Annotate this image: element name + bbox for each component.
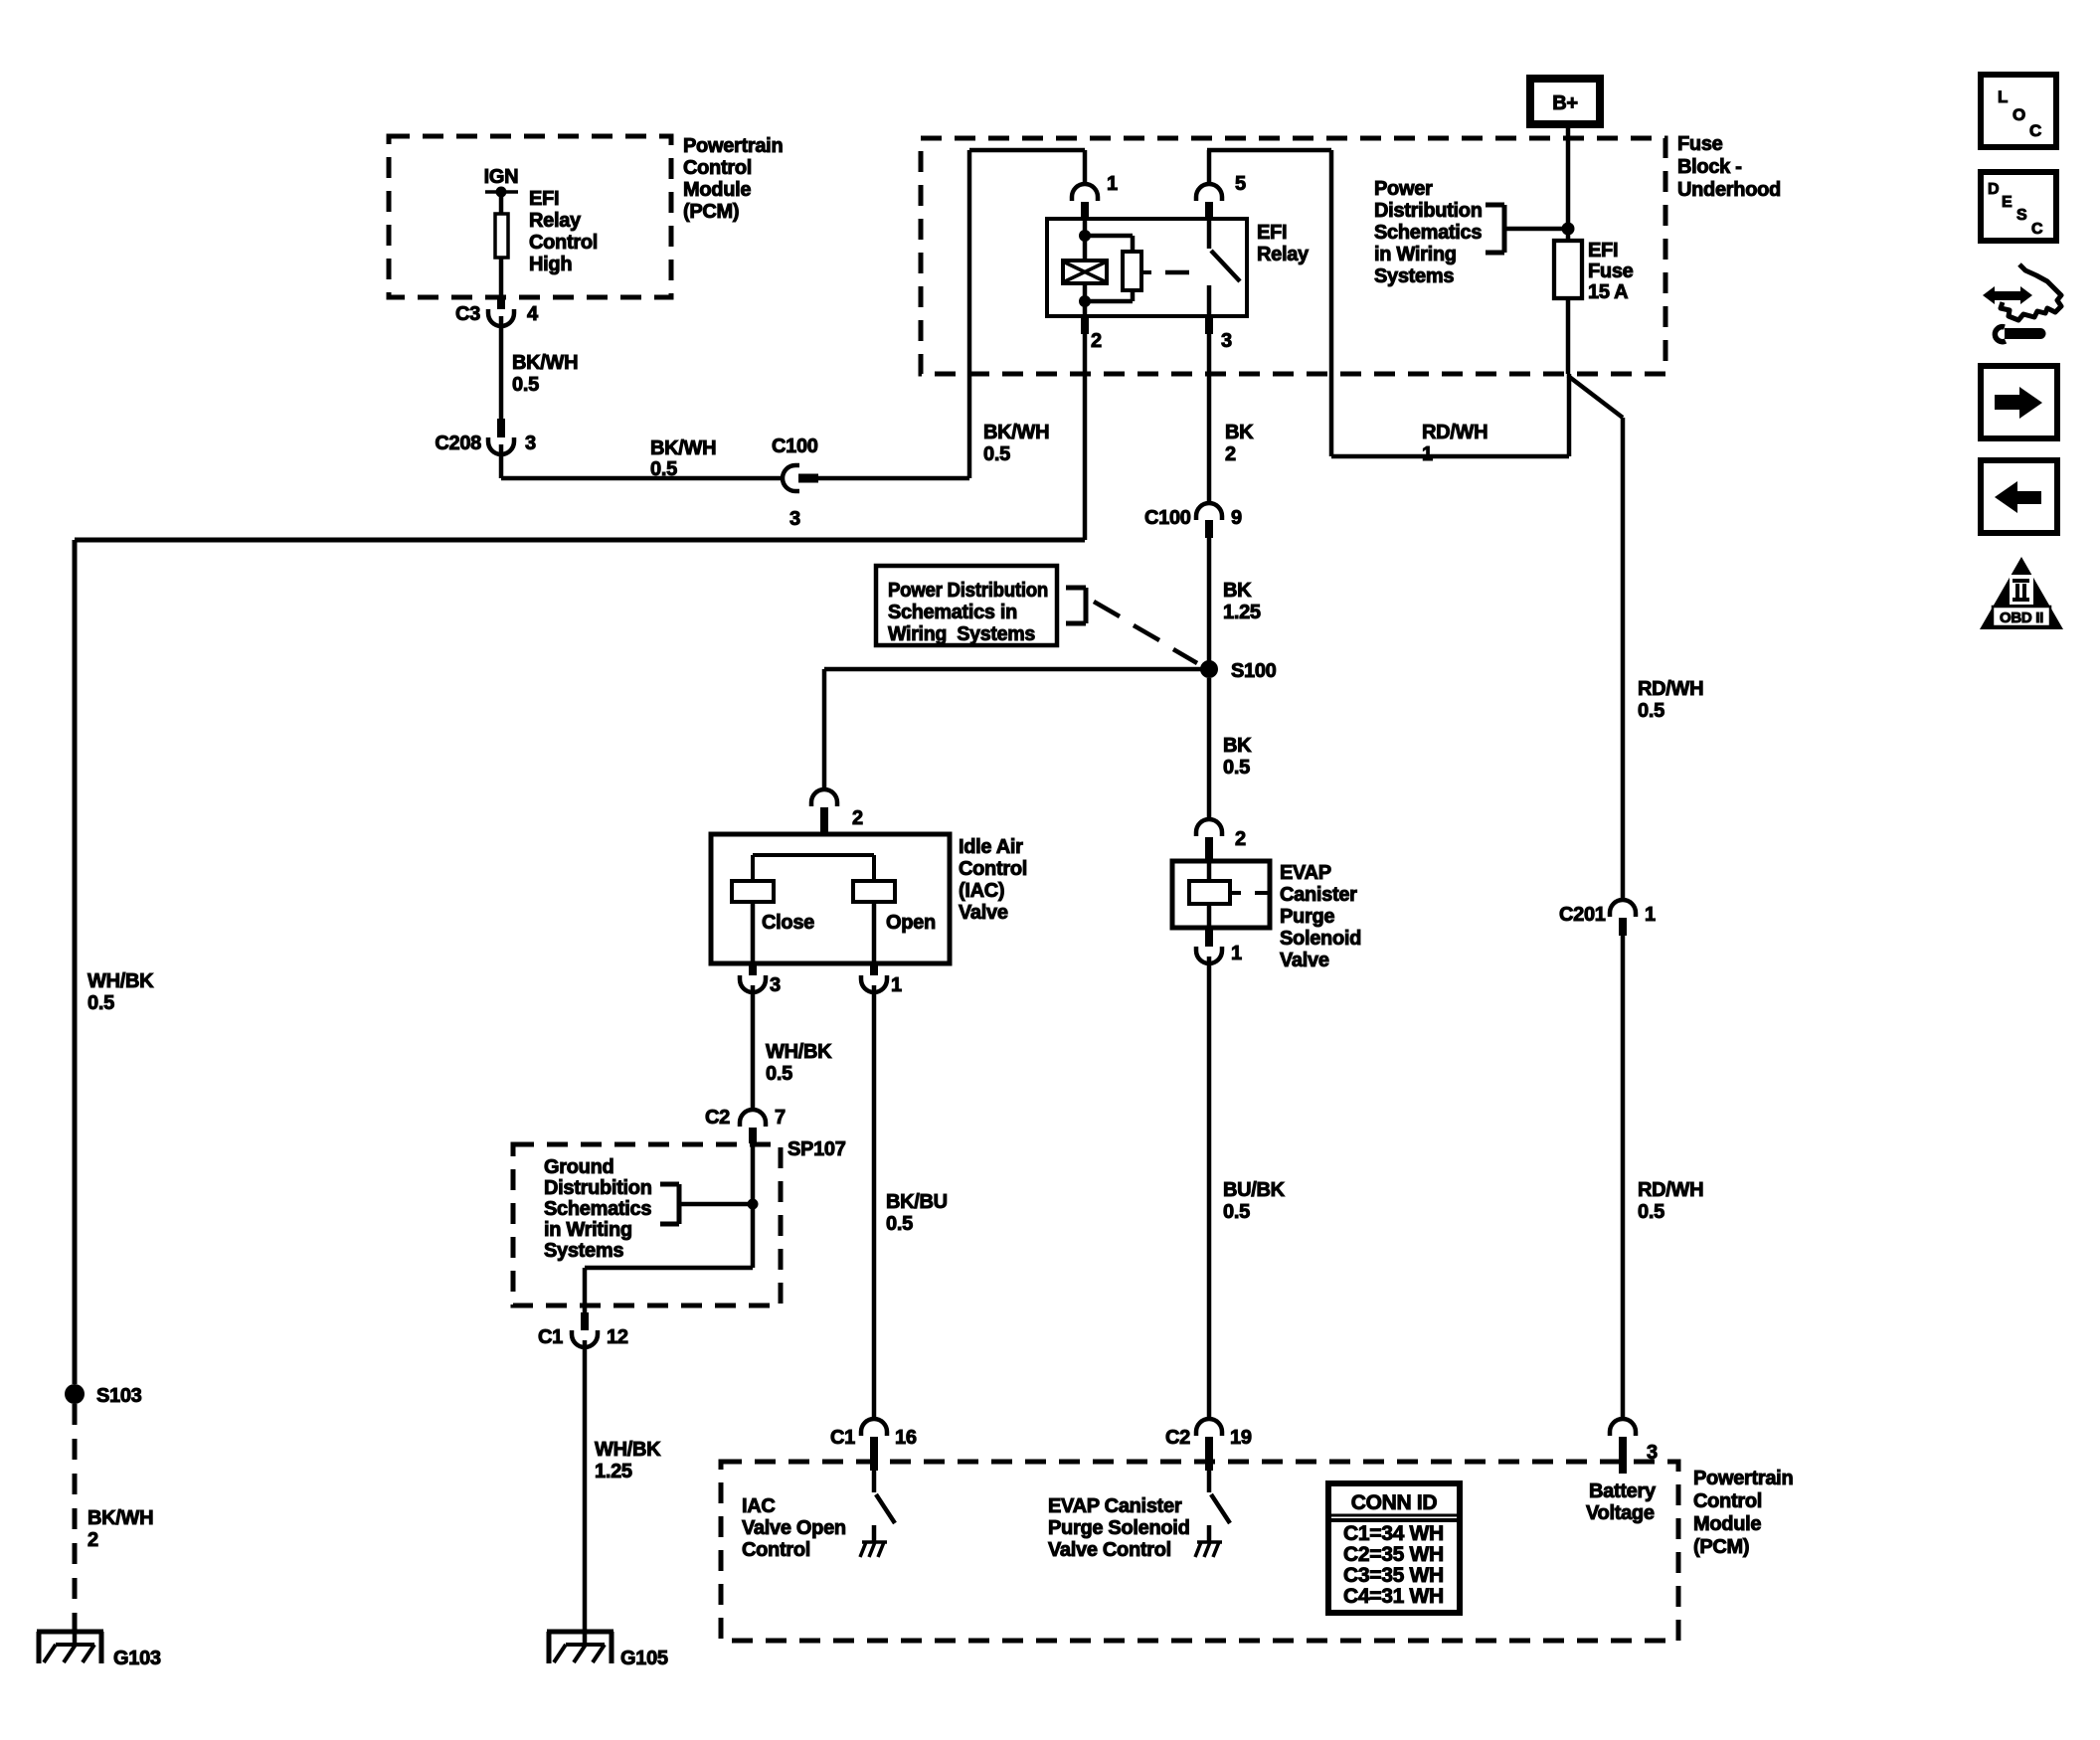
svg-text:Relay: Relay: [1257, 244, 1310, 265]
svg-text:4: 4: [527, 303, 539, 325]
svg-text:SP107: SP107: [787, 1138, 846, 1160]
svg-text:Idle Air: Idle Air: [959, 836, 1023, 858]
svg-text:C4=31 WH: C4=31 WH: [1343, 1585, 1444, 1608]
svg-text:Distrubition: Distrubition: [544, 1177, 652, 1199]
svg-text:Block -: Block -: [1677, 156, 1742, 178]
svg-text:IGN: IGN: [484, 166, 519, 188]
svg-text:3: 3: [1647, 1442, 1658, 1464]
svg-text:Power: Power: [1374, 178, 1433, 200]
svg-text:2: 2: [1235, 828, 1246, 850]
svg-text:WH/BK: WH/BK: [595, 1439, 661, 1461]
svg-text:C3=35 WH: C3=35 WH: [1343, 1564, 1444, 1587]
svg-text:L: L: [1998, 87, 2008, 106]
svg-text:C100: C100: [1144, 507, 1191, 529]
svg-text:Distribution: Distribution: [1374, 200, 1483, 222]
svg-text:Control: Control: [683, 157, 752, 179]
svg-text:(IAC): (IAC): [959, 880, 1004, 902]
svg-text:16: 16: [895, 1427, 917, 1449]
svg-text:2: 2: [1225, 443, 1236, 465]
svg-text:WH/BK: WH/BK: [87, 970, 154, 992]
svg-text:BK: BK: [1223, 580, 1252, 602]
svg-text:OBD II: OBD II: [2000, 609, 2043, 626]
svg-text:Schematics: Schematics: [1374, 222, 1482, 244]
svg-text:Fuse: Fuse: [1588, 261, 1634, 282]
svg-text:19: 19: [1230, 1427, 1252, 1449]
svg-text:Wiring Systems: Wiring Systems: [888, 623, 1035, 645]
svg-text:E: E: [2002, 194, 2012, 211]
svg-text:C3: C3: [455, 303, 480, 325]
svg-text:C1: C1: [538, 1326, 563, 1348]
svg-text:EVAP Canister: EVAP Canister: [1048, 1495, 1182, 1517]
svg-text:C2=35 WH: C2=35 WH: [1343, 1543, 1444, 1566]
svg-text:G105: G105: [620, 1648, 668, 1669]
svg-text:CONN ID: CONN ID: [1351, 1491, 1438, 1514]
svg-text:2: 2: [87, 1529, 98, 1551]
svg-text:RD/WH: RD/WH: [1638, 678, 1703, 700]
svg-text:Systems: Systems: [1374, 265, 1454, 287]
svg-text:C: C: [2031, 221, 2043, 238]
svg-text:2: 2: [852, 807, 863, 829]
svg-text:Control: Control: [529, 232, 598, 254]
svg-text:C2: C2: [1165, 1427, 1190, 1449]
svg-text:1.25: 1.25: [1223, 602, 1261, 623]
svg-text:BK: BK: [1225, 422, 1254, 443]
svg-text:0.5: 0.5: [886, 1213, 913, 1235]
svg-text:Ground: Ground: [544, 1156, 613, 1178]
svg-text:3: 3: [525, 433, 536, 454]
svg-text:1: 1: [1645, 904, 1656, 926]
svg-text:0.5: 0.5: [1223, 757, 1250, 779]
svg-text:O: O: [2012, 105, 2025, 124]
svg-text:High: High: [529, 254, 572, 275]
svg-text:Purge: Purge: [1280, 906, 1334, 928]
svg-text:BK/BU: BK/BU: [886, 1191, 948, 1213]
svg-text:1: 1: [1422, 443, 1433, 465]
svg-text:Powertrain: Powertrain: [1693, 1468, 1793, 1489]
svg-text:3: 3: [1221, 330, 1232, 352]
svg-text:EFI: EFI: [1257, 222, 1287, 244]
svg-text:Valve: Valve: [1280, 950, 1329, 971]
svg-text:EFI: EFI: [529, 188, 559, 210]
svg-text:3: 3: [770, 974, 781, 996]
svg-text:0.5: 0.5: [1638, 700, 1664, 722]
svg-text:5: 5: [1235, 173, 1246, 195]
svg-text:BK: BK: [1223, 735, 1252, 757]
svg-text:IAC: IAC: [742, 1495, 776, 1517]
svg-text:in Writing: in Writing: [544, 1219, 632, 1241]
svg-text:2: 2: [1091, 330, 1102, 352]
svg-text:EVAP: EVAP: [1280, 862, 1331, 884]
svg-text:Module: Module: [1693, 1513, 1761, 1535]
svg-text:0.5: 0.5: [766, 1063, 792, 1085]
svg-text:Valve Open: Valve Open: [742, 1517, 846, 1539]
svg-text:Control: Control: [959, 858, 1027, 880]
svg-text:Schematics: Schematics: [544, 1198, 651, 1220]
svg-text:(PCM): (PCM): [1693, 1536, 1749, 1558]
svg-text:1: 1: [891, 974, 902, 996]
svg-text:1: 1: [1107, 173, 1118, 195]
svg-text:EFI: EFI: [1588, 240, 1618, 261]
svg-text:15 A: 15 A: [1588, 281, 1628, 303]
svg-text:Control: Control: [1693, 1490, 1762, 1512]
svg-text:Schematics in: Schematics in: [888, 602, 1017, 623]
svg-text:RD/WH: RD/WH: [1422, 422, 1487, 443]
svg-text:C1: C1: [830, 1427, 855, 1449]
svg-text:BU/BK: BU/BK: [1223, 1179, 1286, 1201]
svg-text:Solenoid: Solenoid: [1280, 928, 1361, 950]
svg-text:1.25: 1.25: [595, 1461, 632, 1482]
svg-text:Valve: Valve: [959, 902, 1008, 924]
svg-text:BK/WH: BK/WH: [650, 437, 716, 459]
svg-text:D: D: [1988, 181, 1999, 198]
svg-text:Module: Module: [683, 179, 751, 201]
svg-text:S: S: [2016, 207, 2027, 224]
svg-text:Control: Control: [742, 1539, 810, 1561]
svg-text:Valve Control: Valve Control: [1048, 1539, 1171, 1561]
svg-text:BK/WH: BK/WH: [983, 422, 1049, 443]
svg-text:Purge Solenoid: Purge Solenoid: [1048, 1517, 1189, 1539]
svg-text:0.5: 0.5: [87, 992, 114, 1014]
svg-text:Open: Open: [886, 912, 936, 934]
svg-text:Underhood: Underhood: [1677, 179, 1781, 201]
svg-text:0.5: 0.5: [650, 458, 677, 480]
svg-text:12: 12: [607, 1326, 628, 1348]
svg-text:S100: S100: [1231, 660, 1277, 682]
svg-text:G103: G103: [113, 1648, 161, 1669]
svg-text:Close: Close: [762, 912, 814, 934]
svg-text:0.5: 0.5: [512, 374, 539, 396]
svg-text:BK/WH: BK/WH: [512, 352, 578, 374]
svg-text:B+: B+: [1552, 92, 1578, 114]
svg-text:C208: C208: [435, 433, 481, 454]
svg-text:Voltage: Voltage: [1586, 1502, 1655, 1524]
svg-text:Power Distribution: Power Distribution: [888, 580, 1048, 602]
svg-text:7: 7: [775, 1107, 786, 1129]
svg-text:0.5: 0.5: [1223, 1201, 1250, 1223]
svg-text:Relay: Relay: [529, 210, 582, 232]
svg-text:BK/WH: BK/WH: [87, 1507, 153, 1529]
svg-text:3: 3: [789, 508, 800, 530]
svg-text:9: 9: [1231, 507, 1242, 529]
svg-text:1: 1: [1231, 943, 1242, 964]
svg-text:Canister: Canister: [1280, 884, 1357, 906]
svg-text:C2: C2: [705, 1107, 730, 1129]
svg-text:Battery: Battery: [1589, 1480, 1657, 1502]
svg-text:WH/BK: WH/BK: [766, 1041, 832, 1063]
svg-text:S103: S103: [96, 1385, 142, 1407]
svg-text:RD/WH: RD/WH: [1638, 1179, 1703, 1201]
svg-text:0.5: 0.5: [983, 443, 1010, 465]
svg-text:C100: C100: [772, 435, 818, 457]
svg-text:C1=34 WH: C1=34 WH: [1343, 1522, 1444, 1545]
svg-text:Fuse: Fuse: [1677, 133, 1723, 155]
svg-text:C201: C201: [1559, 904, 1606, 926]
svg-text:Powertrain: Powertrain: [683, 135, 783, 157]
svg-text:C: C: [2029, 121, 2041, 140]
svg-text:Systems: Systems: [544, 1240, 623, 1262]
svg-text:(PCM): (PCM): [683, 201, 739, 223]
svg-text:in Wiring: in Wiring: [1374, 244, 1457, 265]
svg-text:0.5: 0.5: [1638, 1201, 1664, 1223]
